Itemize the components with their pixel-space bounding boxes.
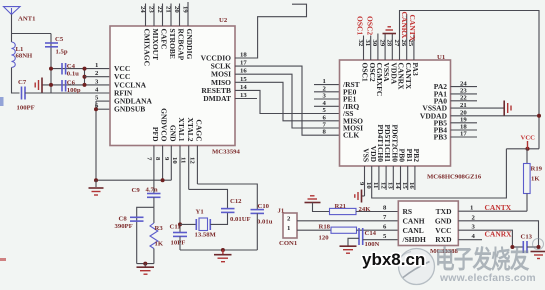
wire C14 to ground xyxy=(348,238,359,245)
ground (left of C6 row, rotated) xyxy=(35,78,42,93)
wire MISO to MISO xyxy=(235,82,340,121)
wire pin12 CAGC jog xyxy=(197,184,257,210)
resistor R3 (zigzag) xyxy=(153,207,155,223)
wire L1 to C7 row xyxy=(12,68,20,94)
wire RXD stub xyxy=(458,239,482,241)
connector J1 CON1 xyxy=(283,213,297,238)
wire bottom join xyxy=(137,263,154,265)
wire VSSAD row xyxy=(451,107,504,109)
capacitor C8 xyxy=(130,216,144,218)
U1 right pin numbers xyxy=(460,80,467,137)
wire pins5/6 vertical to ground rail xyxy=(95,101,97,180)
wire left branch to C8 xyxy=(137,207,154,263)
U2 top pin stubs xyxy=(146,2,189,26)
resistor R21 xyxy=(330,208,357,214)
capacitor C7 xyxy=(21,87,23,100)
wire C4 row (pin 1) xyxy=(51,68,110,70)
watermark elecfans url xyxy=(440,273,536,284)
U1 bottom pin names (rotated) xyxy=(362,125,421,163)
ground (left of pin 9, rotated) xyxy=(355,190,362,203)
wire pin10 XTAL1 vertical xyxy=(179,146,181,233)
wire RESETB to /SS xyxy=(235,90,340,113)
wire CANRX rail from pin 27 to right edge xyxy=(400,11,540,149)
capacitor C14 xyxy=(358,228,360,245)
IC U3 box CAN transceiver xyxy=(398,201,458,246)
U2 top pin names (rotated) xyxy=(143,29,195,67)
U2 bottom pin stubs xyxy=(163,146,198,190)
U2 right pin names xyxy=(201,54,232,104)
ground below R3/C8 xyxy=(137,264,155,275)
capacitor C10 xyxy=(251,209,265,211)
U1 right pin stubs xyxy=(451,87,478,137)
capacitor C6 xyxy=(61,80,63,92)
junction dot bus/C4 xyxy=(49,67,53,71)
wire VDD pin10 to VCC net xyxy=(372,149,507,198)
resistor R18 xyxy=(331,227,357,233)
ground (below pins5/6 vertical) xyxy=(89,180,104,195)
power symbol VCC xyxy=(527,141,529,149)
wire VSS pin9 to ground xyxy=(362,195,365,197)
U1 top pin numbers xyxy=(357,40,414,47)
U1 bottom pin numbers xyxy=(358,182,415,189)
crystal Y1 xyxy=(180,223,196,225)
U3 left pin numbers xyxy=(383,205,387,240)
U1 left pin names xyxy=(342,80,363,140)
wire antenna top row to bus xyxy=(12,33,52,35)
U1 left pin numbers xyxy=(323,78,327,136)
ground (inverted) above R21 xyxy=(305,196,321,203)
capacitor C4 xyxy=(61,63,63,75)
U1 bottom pin stubs xyxy=(365,166,415,196)
wire antenna stem xyxy=(11,15,13,43)
U2 right pin numbers xyxy=(240,52,247,100)
edge artifact red xyxy=(0,258,6,261)
wire RFIN row (pin 4) xyxy=(25,92,110,94)
wire C9 to split xyxy=(153,197,155,207)
wire VCC row down xyxy=(458,230,512,247)
wire VCCDIO jog (pin 18) xyxy=(235,4,307,58)
ground below C14 xyxy=(340,246,357,253)
U2 bottom pin names (rotated) xyxy=(151,108,204,142)
inductor L1 xyxy=(12,42,16,68)
wire GND row down right xyxy=(458,221,538,247)
wire pin11 XTAL2 jog xyxy=(189,189,228,208)
wire ground to R21 xyxy=(313,203,330,212)
wire VCC horizontal xyxy=(506,148,539,150)
wire C6/ground row (pin 3) xyxy=(42,84,110,86)
watermark ybx8.cn xyxy=(362,250,425,270)
ground (inverted) above VSSA/VDDA xyxy=(383,27,397,34)
capacitor C13 xyxy=(512,246,523,248)
wire pin 2 row xyxy=(85,76,111,78)
U2 left pin names xyxy=(114,64,153,114)
ground below C13 xyxy=(531,252,545,259)
capacitor C9 xyxy=(147,193,161,195)
wire MOSI to MOSI xyxy=(235,74,340,128)
U2 bottom pin numbers xyxy=(145,157,195,164)
U1 left pin stubs 1-4 xyxy=(314,85,340,107)
U3 left pin names xyxy=(402,207,427,244)
junction dots on tie xyxy=(83,67,87,71)
ground rail below U2 xyxy=(96,179,171,181)
wire SCLK to CLK xyxy=(235,66,340,135)
resistor R19 xyxy=(526,149,528,164)
IC U2 box MC33594 receiver xyxy=(110,26,235,146)
capacitor C12 xyxy=(221,208,235,210)
ground (right of VSSAD, rotated) xyxy=(504,101,511,116)
U2 pin numbers left xyxy=(95,62,99,110)
wire pins1-2-3 tie vertical xyxy=(84,69,86,85)
antenna ANT1 xyxy=(4,7,21,15)
U3 right pin names xyxy=(435,207,452,244)
U1 top pin stubs xyxy=(364,14,414,60)
capacitor C11 xyxy=(173,232,187,234)
U3 right pin numbers xyxy=(470,205,476,241)
wire CANH row (CON1 pin2 to U3) xyxy=(297,220,398,222)
wire crystal ground rail xyxy=(180,249,257,251)
wire /SHDH row xyxy=(363,239,399,241)
U1 right pin names xyxy=(420,82,448,141)
watermark big grey characters xyxy=(435,240,544,276)
U1 top pin names (rotated) xyxy=(361,63,420,97)
IC U1 box MC68HC908GZ16 microcontroller xyxy=(340,60,451,166)
wire DMDAT stub xyxy=(235,98,257,100)
wire CANL row with R18 xyxy=(297,229,331,231)
wire pin7 PFD vertical xyxy=(153,146,155,194)
wire pins 5,6 rows xyxy=(96,100,110,102)
capacitor C5 xyxy=(45,42,58,44)
ground below crystal rail xyxy=(214,250,232,262)
wire VDDAD row xyxy=(451,115,540,117)
bus vertical from antenna row xyxy=(50,34,52,94)
wire TXD row to R19 xyxy=(458,210,527,212)
watermark registered circle xyxy=(532,238,544,250)
edge artifact blue xyxy=(0,97,4,106)
junction dot bus/C6 xyxy=(49,83,53,87)
U2 top pin numbers xyxy=(139,6,189,13)
